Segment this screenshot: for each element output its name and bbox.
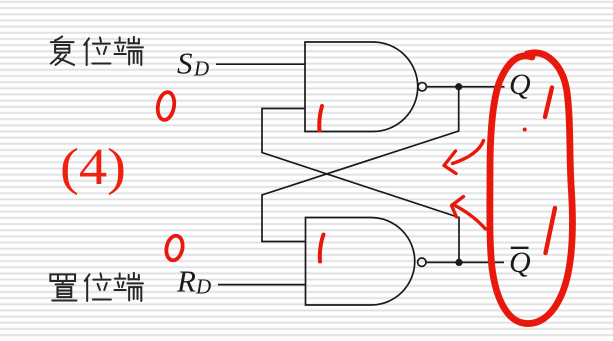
annotation red dot xyxy=(523,128,527,132)
wire U1 output to Q xyxy=(427,86,505,88)
NAND gate U1 output bubble xyxy=(418,83,426,91)
annotation red 0 at RD xyxy=(164,234,185,262)
label 置位端 (set terminal) xyxy=(50,274,76,300)
annotation red 1 near Qbar xyxy=(546,208,556,253)
wire net B: U2 out feedback to U1 bottom input xyxy=(262,109,459,263)
annotation red 0 at SD xyxy=(156,91,177,121)
wire RD input xyxy=(218,284,306,286)
node Qbar junction dot xyxy=(455,259,462,266)
annotation red arrow lower xyxy=(452,197,486,230)
svg-text:R: R xyxy=(176,264,196,299)
annotation red (4) xyxy=(60,139,126,196)
NAND gate U2 output bubble xyxy=(418,258,426,266)
label Q output xyxy=(509,68,531,101)
annotation red ellipse around outputs xyxy=(490,53,573,324)
annotation red 1 near Q xyxy=(545,88,552,118)
svg-text:Q: Q xyxy=(509,246,531,279)
node Q junction dot xyxy=(455,83,462,90)
annotation red 1 inside U1 xyxy=(319,106,322,131)
wire SD input xyxy=(216,63,305,65)
label SD (set input) xyxy=(177,46,209,81)
svg-text:D: D xyxy=(195,275,211,299)
label 复位端 (reset terminal) xyxy=(51,36,74,65)
svg-text:Q: Q xyxy=(509,68,531,101)
NAND gate U1 body (top) xyxy=(305,42,418,132)
annotation red 1 inside U2 xyxy=(320,235,324,262)
label RD (reset input) xyxy=(176,264,211,299)
wire net A: U1 out feedback to U2 top input xyxy=(262,87,459,242)
svg-text:(4): (4) xyxy=(60,139,126,196)
svg-text:S: S xyxy=(177,46,193,81)
wire U2 output to Qbar xyxy=(426,261,504,263)
annotation red arrow upper xyxy=(444,141,484,174)
label Qbar output xyxy=(509,246,531,279)
NAND gate U2 body (bottom) xyxy=(306,218,415,306)
svg-text:D: D xyxy=(193,57,209,81)
